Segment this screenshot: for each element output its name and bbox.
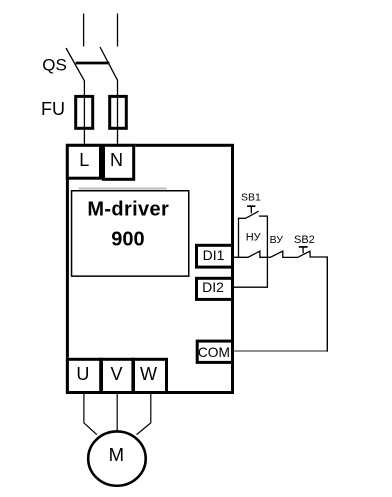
svg-text:N: N (110, 150, 123, 170)
svg-text:QS: QS (42, 55, 67, 74)
svg-text:900: 900 (111, 229, 144, 251)
svg-text:FU: FU (41, 99, 65, 119)
svg-text:COM: COM (198, 344, 230, 360)
svg-text:SB1: SB1 (241, 191, 261, 203)
svg-text:U: U (76, 364, 89, 384)
svg-text:SB2: SB2 (294, 234, 315, 246)
svg-text:ВУ: ВУ (270, 234, 284, 246)
svg-text:M: M (109, 444, 124, 465)
svg-text:L: L (79, 150, 89, 170)
svg-text:M-driver: M-driver (87, 199, 169, 221)
svg-text:НУ: НУ (246, 232, 262, 244)
svg-text:W: W (140, 364, 157, 384)
svg-text:DI2: DI2 (202, 279, 224, 295)
svg-text:V: V (110, 364, 122, 384)
svg-text:DI1: DI1 (203, 247, 225, 263)
